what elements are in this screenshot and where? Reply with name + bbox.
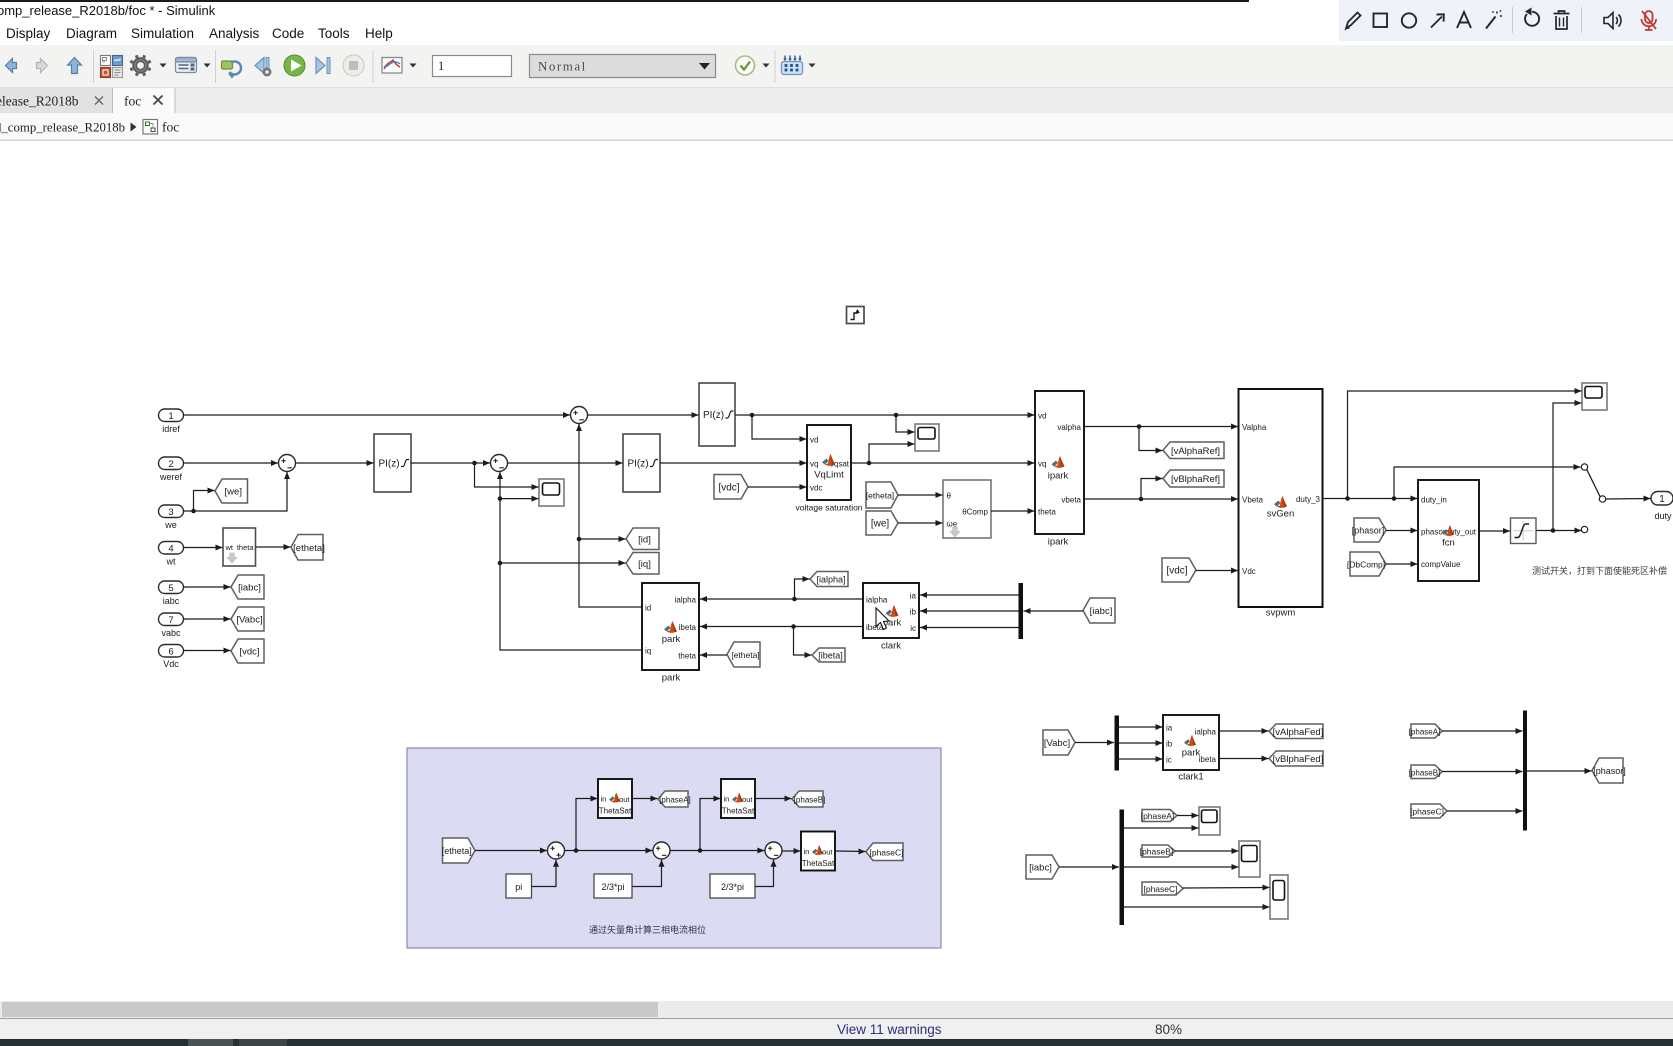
menu bar [0, 22, 1673, 45]
svg-text:wt: wt [225, 543, 234, 552]
wire inport4 to subsystem [184, 545, 223, 551]
goto tag [ibeta] [812, 648, 845, 662]
toolbar dropdown 2 [204, 64, 211, 68]
MATLAB function block park (mirrored) [642, 583, 699, 684]
mux for phasor [1523, 711, 1527, 831]
svg-text:ibeta: ibeta [1199, 755, 1217, 764]
svg-text:[vBlphaFed]: [vBlphaFed] [1273, 754, 1324, 765]
svg-text:2/3*pi: 2/3*pi [601, 882, 624, 892]
svg-text:[phaseB]: [phaseB] [794, 796, 826, 805]
toolbar separator 1 [93, 50, 94, 83]
wire sum iq to PI iq [508, 460, 623, 466]
wire [vdc] to VqLimt vdc [748, 484, 807, 490]
scope duty [1582, 383, 1607, 410]
svg-text:ThetaSat: ThetaSat [722, 807, 755, 816]
wire sum to PI speed [296, 460, 374, 466]
svg-text:park: park [662, 634, 681, 645]
toolbar stop button (disabled) [343, 55, 364, 76]
wire demux2 to scope phaseB [1124, 864, 1239, 870]
goto tag [id] [626, 528, 659, 550]
svg-text:VqLimt: VqLimt [814, 470, 844, 481]
mouse cursor [876, 608, 889, 630]
svg-text:duty_3: duty_3 [1296, 495, 1321, 504]
svg-text:[etheta]: [etheta] [293, 543, 325, 554]
from tag [Vabc] to demux [1043, 730, 1075, 755]
wire branch iq to [iq] [500, 560, 626, 566]
MATLAB function block ThetaSat A [598, 779, 632, 818]
wire clark ialpha to park [700, 596, 863, 602]
toolbar update model icon [222, 61, 242, 79]
manual switch [1581, 464, 1605, 533]
goto tag [Vabc] [231, 607, 264, 631]
svg-text:1: 1 [168, 411, 173, 422]
MATLAB function block ThetaSat B [721, 779, 755, 818]
svg-text:theta: theta [678, 652, 696, 661]
annotation icon microphone muted [1642, 11, 1657, 30]
svg-text:ic: ic [1166, 756, 1172, 765]
svg-text:[phaseC]: [phaseC] [1143, 884, 1177, 894]
sum etheta+pi [548, 842, 565, 859]
wire demux2 to scope phaseC [1124, 904, 1270, 910]
wire [etheta] to sum blue [475, 848, 547, 854]
goto tag [phasor] [1592, 758, 1626, 783]
inport 5 iabc [159, 581, 184, 606]
svg-text:ialpha: ialpha [866, 596, 888, 605]
wire sum 2 to sum 3 blue [670, 848, 764, 854]
toolbar run button [284, 55, 305, 76]
wire 2/3pi to sum 3 [755, 860, 777, 887]
wire sum 3 to ThetaSat C [783, 848, 801, 854]
wire branch vd to VqLimt [752, 415, 807, 442]
svg-text:idref: idref [162, 424, 180, 434]
svg-text:[phasor]: [phasor] [1352, 526, 1385, 536]
svg-text:ib: ib [910, 608, 917, 617]
svg-text:6: 6 [168, 647, 173, 658]
svg-text:[iabc]: [iabc] [238, 583, 261, 594]
from tag [phaseA] to scope [1141, 810, 1177, 822]
svg-text:[iabc]: [iabc] [1029, 863, 1052, 874]
scope iqref [539, 479, 564, 506]
svg-text:park: park [662, 673, 681, 684]
svg-text:theta: theta [1038, 508, 1056, 517]
wire clark1 to [vAlphaFed] [1219, 728, 1269, 734]
svg-text:[vdc]: [vdc] [1166, 566, 1187, 577]
MATLAB function block ThetaSat C [801, 832, 835, 871]
svg-text:wt: wt [166, 557, 176, 567]
sum -2/3pi first [653, 842, 670, 859]
svg-text:ipark: ipark [1048, 537, 1069, 548]
wire park id feedback to sum [576, 424, 642, 607]
wire branch duty to scope top [1348, 388, 1582, 499]
toolbar model settings icon [176, 58, 197, 73]
svg-text:[we]: [we] [871, 519, 890, 530]
svg-text:ia: ia [1166, 724, 1173, 733]
svg-text:out: out [822, 848, 833, 857]
wire clark1 to [vBlphaFed] [1219, 756, 1269, 762]
svg-text:vbeta: vbeta [1061, 496, 1081, 505]
wire [DbComp] to fcn [1386, 561, 1418, 567]
MATLAB function block clark1 [1163, 715, 1219, 783]
wire saturation to switch bottom [1536, 528, 1582, 534]
MATLAB function block fcn (deadband comp) [1418, 480, 1479, 581]
wire mux to clark ia [920, 592, 1019, 598]
wire branch to scope duty second input [1553, 400, 1582, 531]
svg-text:7: 7 [168, 615, 173, 626]
MATLAB function block ipark [1035, 391, 1084, 548]
svg-text:duty_in: duty_in [1421, 496, 1447, 505]
inport 6 Vdc [159, 645, 184, 670]
wire branch vd to scope [896, 415, 915, 435]
title bar [0, 0, 1673, 22]
demux for clark1 [1115, 716, 1120, 771]
svg-text:svpwm: svpwm [1266, 608, 1296, 619]
wire branch iq to scope [500, 496, 539, 502]
demux for phase scopes [1120, 810, 1125, 926]
svg-text:[phaseA]: [phaseA] [659, 796, 691, 805]
annotation icon pencil [1346, 13, 1361, 29]
svg-text:[etheta]: [etheta] [731, 650, 759, 660]
constant 2/3*pi second [710, 874, 755, 898]
annotation icon speaker [1604, 13, 1621, 29]
svg-text:foc: foc [124, 94, 141, 109]
svg-text:[iq]: [iq] [638, 559, 651, 570]
bottom task bar [0, 1039, 1673, 1046]
from tag [phaseA] to phasor mux [1409, 724, 1442, 738]
toolbar breakpoints icon [782, 56, 803, 75]
svg-text:valpha: valpha [1057, 423, 1081, 432]
wire ThetaSat C to [phaseC] [835, 849, 866, 855]
svg-text:PI(z): PI(z) [378, 459, 399, 470]
svg-text:d_comp_release_R2018b: d_comp_release_R2018b [0, 121, 125, 135]
annotation separator 2 [1581, 7, 1582, 33]
svg-text:[phaseA]: [phaseA] [1141, 811, 1175, 821]
wire PI iq to VqLimt vq [660, 460, 807, 466]
wire [phaseA] to mux [1442, 728, 1523, 734]
wire branch to [vAlphaRef] [1139, 427, 1163, 454]
constant pi [506, 874, 532, 898]
wire mux to [phasor] [1527, 768, 1592, 774]
MATLAB function block svGen (svpwm) [1239, 389, 1323, 619]
MATLAB function block clark (mirrored) [863, 583, 919, 652]
from tag [phasor] to fcn [1352, 518, 1386, 542]
wire we branch to goto [we] [194, 488, 215, 512]
tab release_R2018b [0, 88, 113, 113]
svg-text:[Vabc]: [Vabc] [1044, 738, 1070, 749]
subsystem thetaComp [943, 480, 991, 538]
svg-text:vabc: vabc [161, 628, 181, 638]
svg-text:in: in [724, 795, 730, 804]
wire branch duty to switch top [1394, 464, 1581, 499]
goto tag [vBlphaFed] [1269, 751, 1323, 766]
wire branch to ThetaSat A [576, 796, 598, 851]
toolbar dropdown 1 [160, 64, 167, 68]
svg-text:通过矢量角计算三相电流相位: 通过矢量角计算三相电流相位 [589, 924, 706, 935]
wire ipark vbeta to svGen [1084, 496, 1238, 502]
wire demux to clark1 ib [1119, 740, 1163, 746]
wire switch to outport duty [1606, 496, 1651, 502]
svg-text:[etheta]: [etheta] [442, 846, 472, 856]
wire [phaseB] to scope [1175, 848, 1239, 854]
wire branch to ThetaSat B [700, 796, 721, 851]
wire PI id out to ipark vd [735, 412, 1035, 418]
wire [phaseB] to mux [1442, 769, 1523, 775]
svg-text:[phasor]: [phasor] [1593, 766, 1626, 776]
svg-text:ThetaSat: ThetaSat [802, 859, 835, 868]
goto tag [phaseB] blue [792, 791, 825, 807]
annotation icon magic wand [1486, 10, 1502, 28]
wire demux to clark1 ia [1119, 724, 1163, 730]
svg-text:fcn: fcn [1442, 538, 1455, 549]
PI controller speed [374, 434, 411, 492]
PI controller iq [623, 434, 660, 492]
from tag [phaseB] to phasor mux [1409, 765, 1442, 779]
goto tag [iabc] [231, 575, 264, 599]
wire [iabc] to demux2 [1059, 864, 1119, 870]
inport 4 wt [159, 542, 184, 567]
svg-text:[Vabc]: [Vabc] [236, 615, 262, 626]
toolbar settings gear [130, 55, 150, 75]
svg-text:[vBlphaRef]: [vBlphaRef] [1171, 474, 1220, 485]
svg-text:voltage saturation: voltage saturation [795, 503, 862, 513]
wire mux to clark ib [920, 608, 1019, 614]
svg-text:foc: foc [162, 120, 179, 135]
svg-text:ialpha: ialpha [1195, 728, 1217, 737]
inport 3 we [159, 505, 184, 530]
svg-text:[id]: [id] [638, 534, 651, 545]
from tag [etheta] to thetaComp [866, 482, 898, 508]
svg-text:[etheta]: [etheta] [866, 491, 894, 501]
wire fcn to saturation [1479, 528, 1510, 534]
from tag [iabc] to demux2 [1026, 855, 1059, 879]
svg-text:[phaseB]: [phaseB] [1409, 768, 1441, 777]
scope phaseB [1239, 841, 1260, 877]
wire weref to sum [184, 460, 279, 466]
annotation icon trash [1554, 11, 1570, 29]
svg-text:[phaseC]: [phaseC] [1410, 807, 1444, 817]
svg-text:[we]: [we] [225, 487, 242, 498]
svg-text:测试开关，打到下面使能死区补偿: 测试开关，打到下面使能死区补偿 [1532, 565, 1667, 576]
annotation toolbar background [1339, 0, 1673, 41]
sum idref-id [571, 407, 588, 424]
constant 2/3*pi first [594, 874, 632, 898]
svg-text:Normal: Normal [538, 59, 587, 74]
svg-text:θ: θ [947, 492, 952, 501]
model configuration block [847, 307, 865, 324]
wire branch to [vBlphaRef] [1141, 476, 1163, 500]
wire [etheta] to thetaComp [898, 492, 943, 498]
from tag [etheta] to park (mirrored) [727, 642, 760, 667]
toolbar dropdown 4 [763, 64, 770, 68]
svg-text:park: park [1182, 748, 1201, 759]
toolbar separator 3 [373, 50, 374, 83]
svg-text:[vAlphaRef]: [vAlphaRef] [1171, 446, 1220, 457]
toolbar check model icon [736, 56, 755, 75]
svg-text:ibeta: ibeta [679, 623, 697, 632]
wire branch iqref to scope [475, 463, 539, 490]
svg-text:2/3*pi: 2/3*pi [721, 882, 744, 892]
goto tag [phaseC] blue [866, 843, 904, 861]
PI controller id [699, 383, 735, 446]
saturation block [1511, 518, 1537, 544]
toolbar dropdown 3 [410, 64, 417, 68]
svg-text:θComp: θComp [962, 508, 988, 517]
svg-text:ThetaSat: ThetaSat [599, 807, 632, 816]
svg-text:clark: clark [881, 641, 901, 652]
svg-text:weref: weref [159, 472, 183, 482]
outport 1 duty [1651, 492, 1673, 522]
svg-text:in: in [601, 795, 607, 804]
wire ipark valpha to svGen [1084, 424, 1238, 430]
wire [etheta] to park theta [700, 652, 727, 658]
annotation icon undo [1525, 8, 1539, 26]
wire 2/3pi to sum 2 [632, 860, 665, 887]
toolbar back button [6, 59, 17, 73]
inport 2 weref [159, 457, 184, 482]
wire PI speed to sum iq [411, 460, 490, 466]
annotation icon arrow [1431, 14, 1444, 27]
toolbar library browser icon [101, 56, 123, 78]
svg-text:ia: ia [910, 592, 917, 601]
sum weref-we [279, 455, 296, 472]
svg-text:ic: ic [910, 624, 916, 633]
svg-text:vd: vd [1038, 412, 1046, 421]
svg-text:[DbComp]: [DbComp] [1347, 560, 1385, 570]
breadcrumb bar [0, 113, 1673, 141]
wire [phaseC] to scope [1183, 885, 1270, 891]
from tag [etheta] blue area [442, 838, 475, 863]
goto tag [vdc] [231, 639, 264, 663]
toolbar forward button (disabled) [37, 59, 48, 73]
status bar [0, 1018, 1673, 1040]
wire [iabc] to mux [1024, 608, 1084, 614]
goto tag [vAlphaRef] [1163, 442, 1224, 459]
annotation icon rectangle [1374, 14, 1388, 28]
scope vdvq [915, 424, 939, 451]
wire park iq feedback to sum [497, 472, 642, 650]
wire subsystem to [etheta] [256, 544, 291, 550]
svg-text:[iabc]: [iabc] [1090, 606, 1113, 617]
blue annotation area [407, 748, 941, 948]
wire VqLimt vqsat to ipark vq [851, 460, 1035, 466]
svg-text:1: 1 [1659, 494, 1665, 505]
svg-text:out: out [619, 795, 630, 804]
wire svGen duty_3 to fcn [1323, 496, 1418, 502]
svg-text:svGen: svGen [1267, 509, 1294, 520]
svg-text:5: 5 [168, 583, 173, 594]
from tag [phaseB] to scope [1140, 845, 1175, 857]
svg-text:[phaseA]: [phaseA] [1409, 728, 1441, 737]
goto tag [ialpha] [810, 572, 848, 587]
svg-text:ipark: ipark [1048, 471, 1069, 482]
svg-text:in: in [804, 847, 810, 856]
from tag [vdc] to svGen [1162, 558, 1196, 582]
from tag [iabc] to demux (mirrored) [1083, 598, 1115, 623]
svg-text:[ibeta]: [ibeta] [818, 651, 843, 661]
wire demux to clark1 ic [1119, 756, 1163, 762]
inport 1 idref [159, 409, 184, 434]
tab bar background [0, 88, 1673, 113]
svg-text:PI(z): PI(z) [627, 459, 648, 470]
svg-text:duty: duty [1654, 511, 1672, 521]
MATLAB function block VqLimt (voltage saturation) [795, 425, 862, 513]
annotation icon text A [1457, 12, 1471, 28]
svg-text:[ialpha]: [ialpha] [816, 575, 845, 585]
mux for clark inputs [1019, 583, 1024, 639]
svg-text:phasor: phasor [1421, 528, 1446, 537]
goto tag [etheta] [291, 535, 325, 561]
wire [phaseC] to mux [1447, 808, 1523, 814]
toolbar up button [68, 58, 82, 74]
svg-text:4: 4 [168, 544, 173, 555]
svg-text:ialpha: ialpha [675, 596, 697, 605]
wire inport7 to [Vabc] [184, 616, 231, 622]
toolbar separator 4 [775, 50, 776, 83]
sum iqref-iq [491, 455, 508, 472]
toolbar background [0, 45, 1673, 88]
svg-text:vdc: vdc [810, 484, 822, 493]
toolbar dropdown 5 [809, 64, 816, 68]
inport 7 vabc [159, 613, 184, 638]
from tag [we] to thetaComp [866, 511, 898, 535]
svg-text:Vdc: Vdc [1242, 567, 1256, 576]
goto tag [iq] [626, 553, 659, 575]
svg-text:compValue: compValue [1421, 560, 1461, 569]
svg-text:we: we [164, 520, 177, 530]
annotation icon circle [1402, 13, 1416, 27]
wire branch ialpha to [ialpha] [795, 576, 810, 599]
goto tag [phaseA] blue [658, 791, 691, 807]
svg-text:id: id [645, 604, 651, 613]
wire ThetaSat A to [phaseA] [632, 796, 658, 802]
wire inport6 to [vdc] [184, 648, 231, 654]
toolbar mode combobox [530, 55, 716, 78]
wire branch id to [id] [579, 536, 626, 542]
wire [phasor] to fcn [1386, 528, 1418, 534]
from tag [phaseC] to scope [1142, 882, 1183, 895]
svg-text:[phaseC]: [phaseC] [869, 847, 903, 857]
wire pi to sum blue [532, 860, 560, 887]
wire [phaseA] to scope [1177, 813, 1199, 819]
wire sum to sum 2 blue [565, 848, 653, 854]
wire ThetaSat B to [phaseB] [755, 796, 792, 802]
svg-text:[vAlphaFed]: [vAlphaFed] [1273, 727, 1324, 738]
svg-text:clark1: clark1 [1178, 772, 1203, 783]
svg-text:vq: vq [810, 460, 818, 469]
wire sum to PI id [588, 412, 699, 418]
svg-text:Vbeta: Vbeta [1242, 496, 1263, 505]
wire branch vqsat to scope [869, 441, 915, 463]
wire we to sum minus [184, 472, 291, 513]
annotation separator [1512, 7, 1513, 33]
svg-text:[vdc]: [vdc] [239, 647, 259, 658]
scope phaseA [1199, 807, 1220, 835]
svg-text:3: 3 [168, 507, 173, 518]
svg-text:pi: pi [515, 882, 522, 892]
svg-text:ib: ib [1166, 740, 1173, 749]
toolbar step forward icon [316, 58, 330, 74]
svg-text:elease_R2018b: elease_R2018b [0, 94, 79, 109]
svg-text:iabc: iabc [163, 596, 180, 606]
scope phaseC [1270, 875, 1288, 919]
svg-text:Valpha: Valpha [1242, 423, 1267, 432]
wire inport5 to [iabc] [184, 584, 231, 590]
horizontal scrollbar [0, 1001, 1673, 1018]
from tag [DbComp] to fcn [1347, 552, 1386, 576]
svg-text:[phaseB]: [phaseB] [1140, 847, 1174, 857]
svg-text:theta: theta [237, 543, 255, 552]
svg-text:out: out [742, 795, 753, 804]
wire [Vabc] to demux [1075, 740, 1114, 746]
